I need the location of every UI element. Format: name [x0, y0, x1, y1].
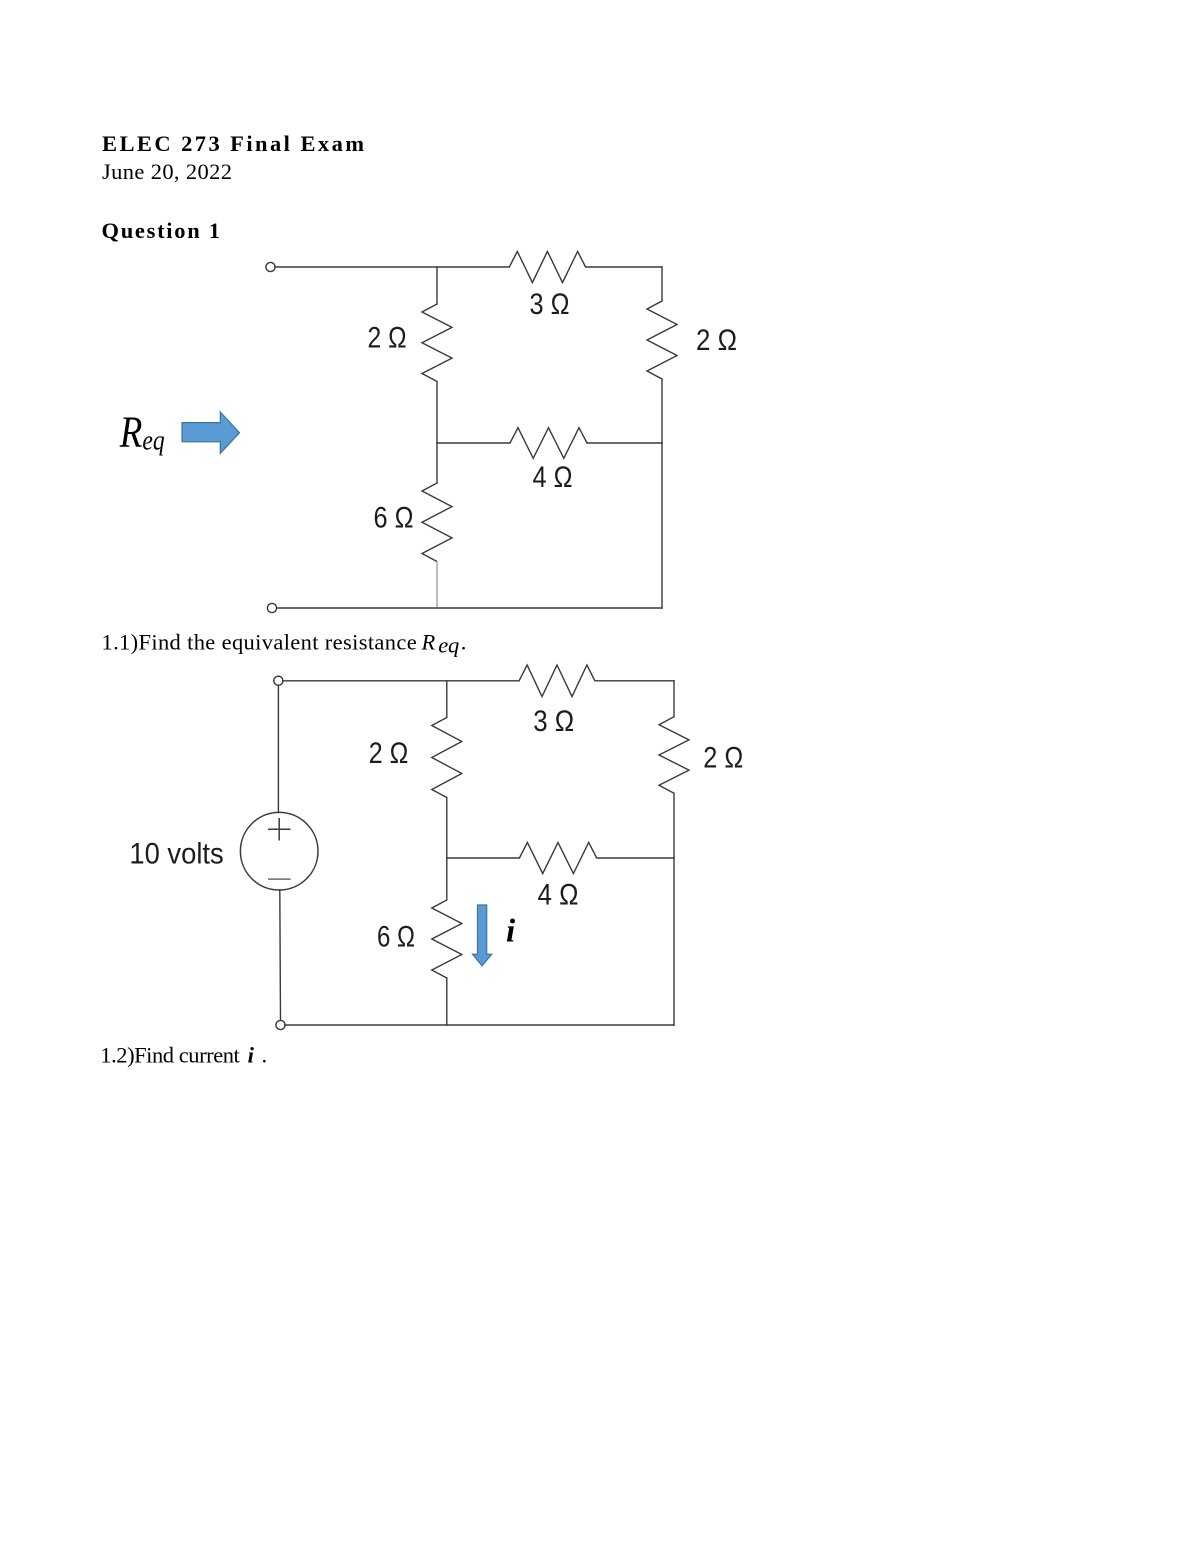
resistor R 6ohm (circuit 2): [432, 900, 462, 978]
label 3 ohm (circuit 1): [530, 288, 570, 321]
terminal (bottom-left, circuit 2): [276, 1020, 285, 1029]
svg-text:10 volts: 10 volts: [129, 838, 223, 871]
label 2 ohm (left, circuit 2): [369, 737, 409, 770]
resistor R 2ohm (right, circuit 1): [647, 301, 677, 379]
resistor R 4ohm (middle, circuit 1): [510, 428, 587, 459]
wire: right rail from resistor to middle node: [661, 379, 663, 443]
resistor R 6ohm (circuit 1): [422, 483, 452, 562]
wire: top-left terminal down to voltage source: [277, 685, 279, 812]
resistor R 2ohm (left, circuit 1): [422, 304, 452, 382]
wire: 2-ohm resistor to middle node: [436, 382, 438, 444]
svg-text:Req: Req: [119, 408, 165, 457]
label 2 ohm (left, circuit 1): [368, 322, 407, 355]
label 4 ohm (circuit 2): [538, 879, 579, 912]
svg-text:4 Ω: 4 Ω: [538, 879, 579, 912]
wire: junction stub down to left 2-ohm resistor: [446, 681, 448, 718]
svg-text:ELEC 273 Final Exam: ELEC 273 Final Exam: [102, 131, 364, 156]
wire: top-left terminal to 3-ohm resistor: [275, 266, 510, 268]
svg-text:3 Ω: 3 Ω: [530, 288, 570, 321]
arrow (blue, pointing right at Req): [182, 412, 240, 453]
svg-text:Question 1: Question 1: [102, 218, 221, 243]
arrow (blue, current i downward): [473, 905, 492, 966]
wire: right rail middle to bottom (circuit 2): [673, 858, 675, 1025]
label 6 ohm (circuit 2): [377, 921, 415, 954]
label 2 ohm (right, circuit 2): [703, 742, 743, 775]
svg-text:4 Ω: 4 Ω: [533, 461, 573, 494]
svg-text:2 Ω: 2 Ω: [696, 324, 737, 357]
wire: middle node down to 6-ohm resistor: [436, 443, 438, 483]
title: ELEC 273 Final Exam: [102, 131, 364, 156]
terminal (bottom-left, circuit 1): [267, 603, 276, 612]
terminal (top-left, circuit 2): [274, 676, 283, 685]
plus sign inside source: [268, 818, 291, 841]
label 6 ohm (circuit 1): [374, 502, 414, 535]
wire: 4-ohm resistor to right rail (circuit 2): [597, 857, 674, 859]
voltage source V1 10 volts (circle): [240, 812, 318, 890]
wire: middle node down to 6-ohm resistor (circuit 2): [446, 858, 448, 900]
wire: 3-ohm resistor to top-right corner: [586, 266, 662, 268]
svg-text:i: i: [248, 1042, 255, 1067]
date line: June 20, 2022: [102, 159, 232, 184]
label i (current, circuit 2): [506, 914, 516, 950]
svg-text:i: i: [506, 914, 516, 950]
svg-text:1.1)Find the equivalent resist: 1.1)Find the equivalent resistance: [102, 630, 417, 655]
resistor R 3ohm (top, circuit 1): [509, 251, 585, 282]
wire: top-right corner down to right 2-ohm resistor: [661, 267, 663, 301]
svg-text:eq: eq: [438, 633, 459, 658]
wire: middle node to 4-ohm resistor (circuit 2): [447, 857, 520, 859]
wire: top rail from terminal to 3-ohm resistor: [283, 680, 519, 682]
wire: middle node to 4-ohm resistor: [437, 442, 510, 444]
wire: 3-ohm resistor to top-right corner: [595, 680, 674, 682]
wire: right rail middle node to bottom wire: [661, 443, 663, 608]
wire: bottom rail circuit 1: [276, 607, 662, 609]
label 3 ohm (circuit 2): [533, 705, 574, 738]
svg-text:2 Ω: 2 Ω: [703, 742, 743, 775]
wire: right rail resistor to middle wire (circuit 2): [673, 793, 675, 858]
terminal (top-left, circuit 1): [266, 262, 275, 271]
label Req (equivalent resistance): [119, 408, 165, 457]
wire: top-right corner down to right 2-ohm resistor (circuit 2): [673, 681, 675, 717]
resistor R 4ohm (middle, circuit 2): [519, 842, 596, 873]
wire (gray): 6-ohm resistor to bottom wire: [436, 562, 438, 608]
label 4 ohm (circuit 1): [533, 461, 573, 494]
wire: 4-ohm resistor to right rail: [587, 442, 662, 444]
resistor R 2ohm (left, circuit 2): [432, 718, 462, 798]
svg-text:.: .: [461, 630, 467, 655]
wire: 6-ohm resistor to bottom rail (circuit 2): [446, 978, 448, 1025]
wire: voltage source down to bottom-left terminal: [279, 890, 282, 1021]
wire: 2-ohm resistor to middle node (circuit 2): [446, 798, 448, 859]
heading: Question 1: [102, 218, 221, 243]
svg-text:2 Ω: 2 Ω: [369, 737, 409, 770]
svg-text:1.2)Find current: 1.2)Find current: [100, 1042, 240, 1067]
label 2 ohm (right, circuit 1): [696, 324, 737, 357]
svg-text:.: .: [262, 1042, 268, 1067]
question text 1.2: [100, 1042, 267, 1067]
wire: junction stub from top wire down to 2-ohm resistor: [436, 267, 438, 304]
resistor R 3ohm (top, circuit 2): [519, 665, 595, 697]
svg-text:R: R: [421, 630, 436, 655]
wire: bottom rail circuit 2: [285, 1024, 674, 1026]
question text 1.1: [102, 630, 467, 658]
resistor R 2ohm (right, circuit 2): [659, 717, 689, 794]
svg-text:6 Ω: 6 Ω: [377, 921, 415, 954]
label 10 volts: [129, 838, 223, 871]
minus sign inside source: [268, 878, 291, 880]
svg-text:6 Ω: 6 Ω: [374, 502, 414, 535]
svg-text:2 Ω: 2 Ω: [368, 322, 407, 355]
svg-text:June 20, 2022: June 20, 2022: [102, 159, 232, 184]
svg-text:3 Ω: 3 Ω: [533, 705, 574, 738]
